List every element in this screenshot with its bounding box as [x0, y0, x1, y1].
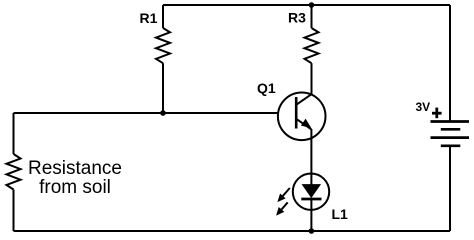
LED emission arrow 1: [278, 188, 290, 201]
svg-text:from soil: from soil: [39, 177, 111, 198]
svg-text:R3: R3: [288, 10, 306, 26]
wire bottom rail: [14, 230, 451, 232]
svg-text:L1: L1: [332, 206, 349, 222]
svg-text:Q1: Q1: [257, 80, 276, 96]
emitter arrowhead Q1: [301, 119, 311, 128]
LED L1: [293, 174, 329, 210]
node junction R3-top rail: [309, 2, 315, 8]
wire R3 top lead: [311, 5, 313, 28]
svg-text:3V: 3V: [416, 100, 431, 114]
node junction LED-bottom rail: [309, 228, 315, 234]
wire left rail upper: [13, 113, 15, 154]
wire R1 bottom lead: [162, 63, 164, 113]
wire LED cathode to bottom rail: [310, 199, 312, 231]
wire right rail upper (to battery +): [449, 5, 451, 121]
wire R1 top lead: [162, 5, 164, 28]
wire R3 bottom lead / collector lead: [311, 63, 313, 94]
battery 3V: [431, 122, 470, 146]
wire emitter to LED: [310, 129, 312, 185]
label + (battery positive): [432, 108, 442, 119]
svg-text:R1: R1: [140, 10, 158, 26]
LED emission arrow 2: [277, 202, 288, 214]
resistor R3: [305, 28, 319, 63]
svg-text:Resistance: Resistance: [28, 158, 122, 179]
node junction R1-base wire: [160, 110, 166, 116]
wire left rail lower: [13, 190, 15, 232]
resistor (resistance from soil): [7, 154, 21, 190]
resistor R1: [156, 28, 170, 63]
wire top rail: [163, 4, 450, 6]
wire right rail lower (battery - to bottom): [449, 146, 451, 231]
transistor Q1: [278, 93, 326, 141]
wire middle rail (base wire): [14, 112, 278, 114]
